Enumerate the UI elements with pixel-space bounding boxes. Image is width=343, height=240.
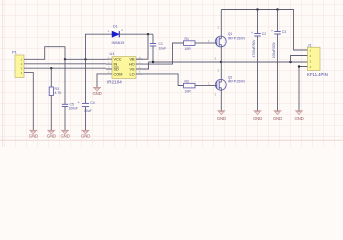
svg-text:10uF: 10uF (84, 109, 92, 113)
ground R3 (47, 130, 56, 138)
svg-text:100nF: 100nF (69, 107, 79, 111)
svg-text:+: + (78, 100, 80, 104)
wire J1 pin2 jog (291, 56, 308, 63)
svg-text:IN5819: IN5819 (112, 40, 126, 45)
svg-text:10R: 10R (185, 47, 192, 51)
wire Q1 drain riser (220, 10, 222, 39)
svg-text:GND: GND (29, 133, 38, 138)
ground P1 pin (29, 130, 38, 138)
svg-text:GND: GND (217, 116, 226, 121)
ground C2 (253, 111, 262, 121)
svg-text:D1: D1 (113, 25, 118, 29)
svg-text:IRFP150N: IRFP150N (228, 36, 246, 40)
diode D1 (86, 25, 154, 60)
transistor Q1 (206, 25, 245, 60)
resistor R2 (184, 80, 207, 94)
node junction at C4/diode tap (84, 58, 86, 60)
wire HO to R1 (137, 43, 184, 64)
svg-text:HO: HO (129, 63, 135, 67)
node junction rail C3 (276, 8, 278, 10)
wire Q1 source to midpoint (220, 44, 222, 62)
ground COM (92, 88, 101, 97)
connector P1 (12, 50, 30, 78)
capacitor C2 bulk (251, 10, 266, 111)
svg-text:R1: R1 (185, 37, 189, 41)
svg-text:4.7K: 4.7K (55, 91, 63, 95)
wire VB riser (137, 34, 149, 59)
capacitor C1 bootstrap (150, 34, 166, 62)
wire P1 pin GND down (30, 73, 34, 131)
sheet border bottom (0, 139, 343, 141)
node junction at R3 tap (50, 67, 52, 69)
svg-text:IN: IN (114, 63, 118, 67)
svg-text:LO: LO (130, 72, 135, 76)
ground C3 (273, 111, 282, 121)
svg-text:IRFP150N: IRFP150N (228, 80, 246, 84)
IC U1 IR2104 (106, 51, 143, 84)
svg-text:GND: GND (60, 133, 69, 138)
node junction J1 pin4 (298, 65, 300, 67)
sheet border left (2, 0, 4, 147)
svg-text:GND: GND (253, 116, 262, 121)
svg-text:+: + (251, 31, 253, 35)
ground C5 (60, 130, 69, 138)
svg-text:P1: P1 (12, 50, 18, 55)
svg-text:GND: GND (47, 133, 56, 138)
svg-text:C4: C4 (90, 101, 94, 105)
svg-text:VS: VS (130, 68, 136, 72)
resistor R3 (49, 68, 62, 130)
node junction half-bridge midpoint (220, 61, 222, 63)
node junction rail C2 (256, 8, 258, 10)
svg-text:10R: 10R (185, 90, 192, 94)
wire COM to ground (97, 74, 106, 88)
svg-text:10uF: 10uF (159, 46, 167, 50)
wire J1 pin4 to ground (299, 67, 308, 111)
node junction C1 bottom (152, 61, 154, 63)
capacitor C5 (62, 59, 78, 130)
svg-text:GND: GND (92, 91, 101, 96)
ground Q2 source (217, 111, 226, 121)
wire LO to R2 (137, 74, 184, 86)
wire VS pin riser (137, 62, 149, 69)
svg-text:+: + (271, 29, 273, 33)
connector J1 (307, 42, 328, 77)
svg-text:C3: C3 (282, 30, 286, 34)
capacitor C4 electrolytic (78, 59, 95, 130)
wire Q2 source to ground (220, 88, 222, 111)
node junction J1 pin2 jog (289, 61, 291, 63)
svg-text:KF11.4PIN: KF11.4PIN (307, 72, 328, 77)
wire IN row (30, 63, 107, 65)
wire Q2 drain riser (220, 62, 222, 82)
ground C4 (81, 130, 90, 138)
capacitor C3 (271, 10, 286, 111)
svg-text:R2: R2 (185, 80, 189, 84)
resistor R1 (184, 37, 207, 51)
svg-text:C2: C2 (262, 32, 266, 36)
wire VS long row (149, 61, 308, 63)
svg-text:100uF/50V: 100uF/50V (272, 41, 276, 58)
svg-text:U1: U1 (110, 51, 116, 56)
svg-text:IR2104: IR2104 (107, 79, 122, 84)
svg-text:GND: GND (294, 116, 303, 121)
node junction VB riser (147, 33, 149, 35)
svg-text:4700uF/50V: 4700uF/50V (252, 39, 256, 58)
svg-text:VCC: VCC (114, 58, 122, 62)
svg-text:GND: GND (81, 133, 90, 138)
wire top supply rail (221, 10, 307, 51)
svg-text:SD: SD (114, 68, 120, 72)
node junction at C5 tap (64, 58, 66, 60)
transistor Q2 (206, 69, 245, 97)
wire SD row (30, 67, 107, 69)
ground J1 pin4 (294, 111, 303, 121)
svg-text:VB: VB (130, 58, 136, 62)
svg-text:GND: GND (273, 116, 282, 121)
svg-text:COM: COM (114, 72, 123, 76)
wire VCC row with jog (30, 47, 107, 60)
